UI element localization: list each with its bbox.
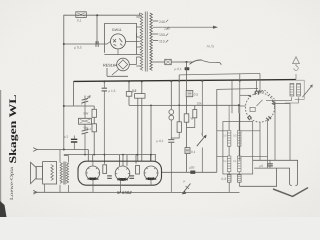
svg-text:µ 1,5: µ 1,5	[108, 89, 115, 93]
svg-text:0,1: 0,1	[191, 150, 196, 154]
svg-text:µ 0,1: µ 0,1	[157, 139, 164, 143]
svg-text:W: W	[191, 117, 194, 121]
svg-text:M 6502: M 6502	[117, 190, 132, 195]
svg-text:5W: 5W	[84, 112, 89, 116]
svg-text:0,5: 0,5	[223, 135, 227, 138]
svg-text:0,1: 0,1	[233, 160, 237, 163]
svg-text:0,1: 0,1	[77, 19, 82, 23]
svg-text:µ1: µ1	[65, 135, 69, 139]
svg-text:110: 110	[159, 40, 165, 44]
svg-text:150: 150	[159, 33, 165, 37]
svg-text:µ1: µ1	[88, 127, 92, 131]
svg-text:µ 0,5: µ 0,5	[74, 46, 82, 50]
svg-text:µ 0,1: µ 0,1	[175, 67, 182, 71]
svg-text:0,5: 0,5	[233, 135, 237, 138]
svg-text:Loewe-Opta: Loewe-Opta	[9, 166, 15, 200]
svg-text:GW11: GW11	[112, 28, 122, 32]
svg-text:µ50: µ50	[189, 166, 195, 170]
svg-text:0,5: 0,5	[132, 88, 137, 92]
svg-text:0,5: 0,5	[194, 92, 199, 96]
svg-text:REN904: REN904	[117, 178, 128, 182]
svg-text:220: 220	[164, 26, 170, 30]
svg-text:0,3: 0,3	[222, 177, 227, 181]
svg-text:µ: µ	[184, 179, 186, 183]
svg-text:10k: 10k	[197, 102, 203, 106]
svg-text:Skagen WL: Skagen WL	[8, 94, 19, 163]
svg-text:µ5: µ5	[260, 164, 264, 168]
svg-text:µ2: µ2	[88, 95, 92, 99]
svg-text:RES164: RES164	[103, 64, 117, 68]
svg-text:0,1: 0,1	[223, 160, 227, 163]
svg-text:AUS: AUS	[207, 44, 215, 48]
svg-text:1: 1	[201, 132, 203, 136]
svg-text:240: 240	[159, 20, 165, 24]
